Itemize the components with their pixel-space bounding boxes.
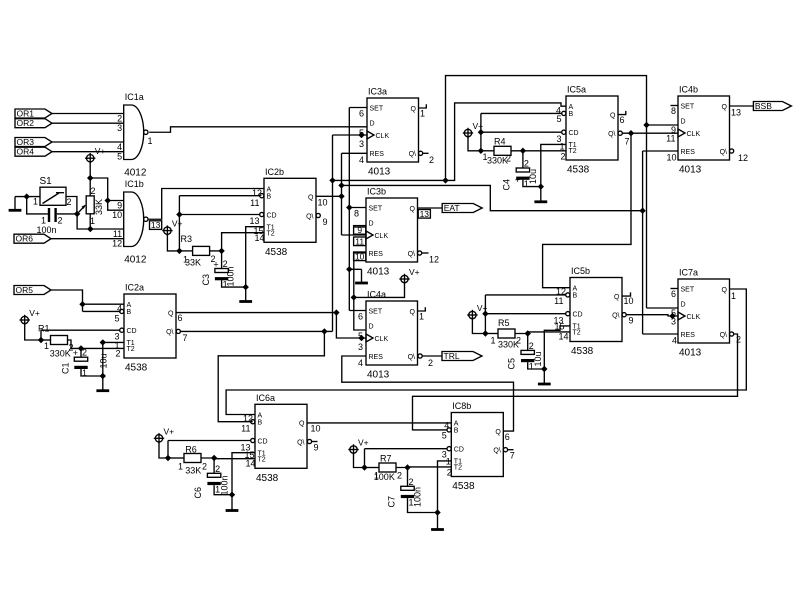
wire R4 pin1 (481, 150, 494, 152)
junction IC1b pin9 (105, 197, 111, 203)
svg-text:SET: SET (369, 308, 383, 315)
svg-text:2: 2 (117, 114, 122, 124)
svg-text:R6: R6 (185, 445, 197, 455)
wire OR2 to IC1a pin3 (52, 122, 124, 124)
junction R3 node (176, 248, 182, 254)
svg-text:+: + (515, 175, 520, 185)
capacitor C6 100n (207, 473, 220, 477)
junction C1 top tap (78, 345, 84, 351)
wire R5 pin1 (485, 333, 498, 335)
wire R7 pin1 (365, 467, 380, 469)
junction Q/rail (338, 193, 344, 199)
resistor R1 330K (51, 336, 68, 345)
svg-text:1: 1 (33, 197, 38, 207)
svg-text:14: 14 (558, 331, 568, 341)
svg-text:4: 4 (672, 336, 677, 346)
svg-text:2: 2 (115, 349, 120, 359)
svg-text:B: B (573, 293, 578, 300)
svg-text:4013: 4013 (367, 370, 390, 381)
wire down to IC4a D (354, 297, 366, 330)
svg-text:4538: 4538 (571, 346, 594, 357)
svg-text:Q: Q (410, 206, 416, 213)
svg-text:1: 1 (559, 142, 564, 152)
resistor R4 330K (494, 146, 511, 155)
svg-text:4013: 4013 (368, 167, 391, 178)
svg-text:T2: T2 (573, 330, 581, 337)
svg-text:Q: Q (610, 112, 616, 119)
svg-text:IC5b: IC5b (571, 266, 590, 276)
capacitor C4 10u (516, 168, 529, 172)
svg-text:11: 11 (355, 236, 364, 246)
wire C3 bottom to T1/ground node (222, 280, 246, 287)
wire IC1b output up to IC2b A (149, 189, 264, 220)
wire IC3a CLK (333, 134, 368, 136)
svg-text:T2: T2 (454, 465, 462, 472)
svg-text:Q: Q (722, 287, 728, 294)
junction CLK jog dot IC7a (669, 313, 675, 319)
junction R6/C6 (211, 455, 217, 461)
svg-text:13: 13 (151, 220, 161, 230)
capacitor under S1 100n (48, 208, 50, 222)
svg-text:1: 1 (44, 341, 49, 351)
wire to B (83, 310, 120, 312)
wire junction down to C5 (527, 334, 529, 351)
wire IC2a Q to IC4a CLK (176, 312, 336, 314)
svg-text:100n: 100n (220, 475, 230, 495)
feedback wire IC5a QN to IC5b A (543, 133, 631, 288)
wire C7 bottom to T1/ground node (408, 498, 438, 512)
wire OR1 to IC1a pin2 (52, 113, 124, 115)
rail2 to reset column (342, 185, 643, 210)
svg-text:5: 5 (556, 114, 561, 124)
svg-text:C7: C7 (387, 496, 397, 508)
svg-text:10u: 10u (528, 169, 538, 184)
svg-text:4012: 4012 (124, 168, 147, 179)
junction QN branch down (321, 328, 327, 334)
junction C4/T1/ground (538, 183, 544, 189)
svg-text:C3: C3 (201, 274, 211, 286)
svg-text:4: 4 (359, 155, 364, 165)
switch S1 (40, 187, 66, 205)
svg-text:7: 7 (510, 451, 515, 461)
wire IC3a SET (349, 107, 367, 109)
svg-text:SET: SET (681, 286, 695, 293)
svg-text:CLK: CLK (687, 314, 701, 321)
svg-text:Q\: Q\ (408, 251, 415, 258)
svg-text:V+: V+ (473, 121, 484, 131)
svg-text:4012: 4012 (124, 255, 147, 266)
wire V+ to R5 node (472, 319, 485, 334)
wire IC8b CD to R7 node (365, 448, 448, 450)
flip-flop IC7a (4013) (678, 279, 730, 343)
svg-text:IC3b: IC3b (367, 187, 386, 197)
svg-text:2: 2 (516, 336, 521, 346)
IC3a Q stub (nc) (419, 104, 427, 108)
svg-text:T2: T2 (569, 148, 577, 155)
junction ground tap (346, 266, 352, 272)
monostable IC5b (4538) (570, 278, 622, 342)
svg-text:10: 10 (311, 424, 321, 434)
input flag OR4 (15, 147, 52, 156)
reset column vertical (642, 151, 644, 334)
wire V+ to R1 node (25, 324, 41, 340)
V+ supply at R3 (164, 227, 171, 234)
wire to IC7a D (647, 307, 679, 309)
svg-text:IC8b: IC8b (452, 401, 471, 411)
NAND gate IC1b (4012) (124, 192, 144, 247)
svg-text:13: 13 (731, 108, 741, 118)
V+ supply symbol at pot (87, 155, 94, 162)
svg-text:IC5a: IC5a (567, 85, 586, 95)
svg-text:+: + (213, 260, 218, 270)
svg-text:CLK: CLK (376, 133, 390, 140)
svg-text:B: B (127, 309, 132, 316)
wire V+ to R6 node (159, 442, 168, 458)
svg-text:RES: RES (681, 332, 696, 339)
svg-text:C5: C5 (507, 358, 517, 370)
ground at switch S1 (14, 197, 16, 211)
svg-text:Q: Q (411, 106, 417, 113)
svg-text:6: 6 (671, 289, 676, 299)
svg-text:8: 8 (354, 209, 359, 219)
svg-text:Q\: Q\ (166, 329, 173, 336)
IC5a Q stub (618, 111, 626, 115)
svg-text:B: B (454, 428, 459, 435)
ground on SET rail (349, 268, 361, 270)
svg-text:Q: Q (308, 195, 314, 202)
wire IC2b B and CD tied to V+ node (179, 195, 259, 197)
svg-text:1: 1 (183, 255, 188, 265)
svg-text:S1: S1 (40, 176, 53, 187)
wire OR3 to IC1a pin4 (52, 141, 124, 143)
svg-text:4: 4 (358, 358, 363, 368)
svg-text:11: 11 (113, 229, 122, 239)
svg-text:2: 2 (736, 335, 741, 345)
svg-text:A: A (127, 302, 132, 309)
svg-text:3: 3 (671, 317, 676, 327)
svg-text:IC7a: IC7a (679, 268, 698, 278)
svg-text:10: 10 (624, 296, 634, 306)
wire QN branch to IC6a B (218, 331, 324, 421)
svg-text:5: 5 (114, 314, 119, 324)
wire IC3a RES (342, 152, 368, 154)
svg-text:D: D (681, 119, 686, 126)
svg-text:2: 2 (91, 186, 96, 196)
svg-text:3: 3 (117, 123, 122, 133)
wire C6 bottom to T1/ground node (214, 485, 232, 495)
ground at C1 (102, 376, 104, 391)
svg-text:10: 10 (112, 210, 122, 220)
IC4b Q wire to BSB (730, 105, 754, 107)
V+ at R7 (350, 446, 357, 453)
svg-text:3: 3 (358, 342, 363, 352)
svg-text:14: 14 (245, 459, 255, 469)
wire branch down to CLK (336, 313, 366, 338)
wire V+ down to junction (89, 162, 91, 178)
input flag OR5 (14, 286, 51, 295)
IC5a QN feedback to A and IC4b CLK (618, 131, 622, 135)
input flag OR2 (15, 119, 52, 128)
wire capacitor plate2 to node (57, 213, 77, 215)
boxed pin number 13 IC1b output (150, 221, 162, 230)
junction V+ / pot top (87, 175, 93, 181)
junction on reset column (639, 208, 645, 214)
V+ at R4 (464, 129, 471, 136)
junction C1/ground (100, 373, 106, 379)
wire to IC7a RES (643, 333, 678, 335)
wire up to IC3b RES (354, 253, 366, 297)
svg-text:11: 11 (250, 198, 259, 208)
junction T1 line (100, 339, 106, 345)
monostable IC5a (4538) (566, 96, 618, 160)
svg-text:V+: V+ (95, 146, 106, 156)
wire OR6 to IC1b pin12 (51, 238, 124, 240)
svg-text:Q\: Q\ (409, 151, 416, 158)
svg-text:B: B (569, 111, 574, 118)
ground at C7 (437, 513, 439, 530)
svg-text:2: 2 (58, 216, 63, 226)
wire junction down to capacitor plate1 (27, 197, 48, 214)
svg-text:6: 6 (178, 313, 183, 323)
wire V+ to R4 node (468, 137, 481, 151)
svg-text:4013: 4013 (367, 267, 390, 278)
svg-text:V+: V+ (164, 426, 175, 436)
wire junction to IC1b pins 9,10 (90, 178, 124, 201)
wire R3 pin1 (179, 250, 192, 252)
svg-text:CD: CD (127, 328, 137, 335)
svg-text:OR6: OR6 (16, 234, 34, 244)
NAND gate IC1a (4012) (124, 105, 144, 160)
svg-text:5: 5 (442, 431, 447, 441)
svg-text:A: A (569, 104, 574, 111)
svg-text:2: 2 (428, 358, 433, 368)
wire IC8b Q to IC4a RES (342, 356, 514, 431)
junction B/CD tie (176, 211, 182, 217)
junction C3/T1/ground (243, 284, 249, 290)
IC2b QN bubble (nc) (316, 213, 320, 217)
svg-text:4538: 4538 (452, 481, 475, 492)
wire IC3b CLK (342, 234, 367, 236)
vertical IC3a RES / IC3b CLK net (341, 153, 343, 235)
svg-text:2: 2 (215, 464, 220, 474)
svg-text:V+: V+ (477, 303, 488, 313)
wire to IC4b RES (643, 150, 678, 152)
svg-text:Q\: Q\ (408, 354, 415, 361)
wire C1 bottom to ground node (81, 369, 103, 376)
V+ at IC4a (401, 275, 408, 282)
svg-text:12: 12 (112, 239, 122, 249)
svg-text:RES: RES (370, 151, 385, 158)
svg-text:10: 10 (318, 198, 328, 208)
wire IC5b T1 down to node (544, 326, 570, 369)
top wire to IC4b D and IC7a D (446, 76, 647, 308)
junction R5 node (482, 330, 488, 336)
svg-text:T2: T2 (127, 346, 135, 353)
svg-text:V+: V+ (358, 438, 369, 448)
svg-text:1: 1 (731, 291, 736, 301)
monostable IC2b (4538) (264, 178, 316, 242)
svg-text:R4: R4 (494, 137, 506, 147)
junction IC4b D tap (643, 122, 649, 128)
svg-text:Q\: Q\ (720, 332, 727, 339)
svg-text:33K: 33K (185, 465, 201, 475)
capacitor C1 10u (74, 357, 87, 361)
svg-text:3: 3 (359, 139, 364, 149)
junction R4/C4 (520, 148, 526, 154)
svg-text:1: 1 (483, 152, 488, 162)
svg-text:IC4b: IC4b (679, 85, 698, 95)
svg-text:4013: 4013 (679, 348, 702, 359)
pot top lead (89, 178, 91, 196)
svg-text:2: 2 (409, 477, 414, 487)
junction CD tie (478, 129, 484, 135)
IC4a Q stub (nc) (418, 307, 426, 311)
svg-text:1: 1 (90, 216, 95, 226)
svg-text:CD: CD (454, 447, 464, 454)
svg-text:2: 2 (524, 159, 529, 169)
IC4b SET stub (nc) (671, 105, 679, 107)
junction CD tie IC5b (482, 311, 488, 317)
wire R1 pin2 down to T2 line (68, 340, 125, 348)
svg-text:SET: SET (370, 105, 384, 112)
svg-text:Q\: Q\ (608, 131, 615, 138)
svg-text:OR3: OR3 (17, 137, 35, 147)
svg-text:4538: 4538 (265, 247, 288, 258)
svg-text:Q\: Q\ (297, 439, 304, 446)
svg-text:D: D (370, 121, 375, 128)
svg-text:OR5: OR5 (16, 285, 34, 295)
junction C5/T1/ground (541, 366, 547, 372)
junction top wire (442, 177, 448, 183)
input flag OR3 (15, 138, 52, 147)
svg-text:D: D (681, 302, 686, 309)
output flag EAT (442, 204, 482, 213)
svg-text:TRL: TRL (444, 351, 460, 361)
wire IC6a CD to R6 node (168, 440, 251, 442)
svg-text:IC1a: IC1a (125, 92, 144, 102)
svg-text:IC2a: IC2a (125, 283, 144, 293)
svg-text:OR2: OR2 (17, 118, 35, 128)
svg-text:5: 5 (117, 152, 122, 162)
svg-text:C6: C6 (193, 487, 203, 499)
IC4a QN to TRL flag (418, 354, 422, 358)
svg-text:100n: 100n (226, 266, 236, 286)
flip-flop IC3b (4013) (366, 198, 418, 262)
svg-text:CD: CD (267, 212, 277, 219)
svg-text:Q\: Q\ (493, 448, 500, 455)
svg-text:T2: T2 (267, 231, 275, 238)
flip-flop IC4b (4013) (678, 96, 730, 160)
junction QN feedback (628, 130, 634, 136)
input flag OR1 (15, 109, 52, 118)
IC8b QN stub (nc) (503, 448, 507, 452)
wire R1 pin1 (41, 339, 51, 341)
wire C4 bottom to T1/ground node (523, 180, 541, 187)
IC3a QN bubble and stub (nc) (419, 151, 423, 155)
svg-text:33K: 33K (94, 199, 104, 215)
svg-text:2: 2 (506, 154, 511, 164)
wire IC5b B and CD to V+ node (485, 294, 565, 296)
wire OR4 to IC1a pin5 (52, 151, 124, 153)
svg-text:RES: RES (369, 354, 384, 361)
flip-flop IC4a (4013) (366, 301, 418, 365)
resistor R3 33K (193, 246, 210, 255)
svg-text:1: 1 (374, 471, 379, 481)
boxed pin 9 (354, 226, 366, 235)
wire IC2b Q to junction (316, 195, 342, 197)
svg-text:V+: V+ (409, 267, 420, 277)
junction R4 node (478, 148, 484, 154)
capacitor C7 100n (401, 486, 414, 490)
svg-text:4: 4 (444, 421, 449, 431)
wire V+ to R7 node (354, 453, 365, 467)
svg-text:A: A (258, 412, 263, 419)
svg-text:Q\: Q\ (720, 149, 727, 156)
svg-text:6: 6 (620, 115, 625, 125)
svg-text:IC3a: IC3a (368, 87, 387, 97)
svg-text:CLK: CLK (375, 233, 389, 240)
boxed pin 13 and Q wire to EAT (418, 207, 443, 209)
wire node down to pot bottom then IC1b pin11 (77, 214, 124, 229)
svg-text:2: 2 (447, 468, 452, 478)
svg-text:Q: Q (614, 294, 620, 301)
svg-text:12: 12 (243, 414, 253, 424)
svg-text:V+: V+ (172, 219, 183, 229)
junction A tap (79, 301, 85, 307)
svg-text:EAT: EAT (444, 203, 460, 213)
input flag OR6 (14, 234, 51, 243)
svg-text:12: 12 (738, 153, 748, 163)
monostable IC6a (4538) (255, 404, 307, 468)
wire to IC1b pin10 (108, 201, 124, 211)
monostable IC8b (4538) (451, 413, 503, 477)
svg-text:A: A (573, 286, 578, 293)
V+ at R1 (21, 316, 28, 323)
wire junction down to C4 (522, 151, 524, 168)
svg-text:2: 2 (67, 197, 72, 207)
svg-text:D: D (369, 221, 374, 228)
svg-text:6: 6 (358, 312, 363, 322)
wire IC3b SET (349, 207, 366, 209)
wire R6 pin1 (168, 457, 184, 459)
svg-text:A: A (454, 421, 459, 428)
IC7a Q to rail and IC6a A (226, 289, 746, 415)
svg-text:OR4: OR4 (17, 147, 35, 157)
svg-text:1: 1 (82, 368, 87, 378)
junction at S1 input node (24, 193, 30, 199)
junction R7 node (361, 464, 367, 470)
svg-text:Q: Q (168, 310, 174, 317)
wire R3 pin2 to junction (210, 250, 222, 252)
svg-text:+: + (73, 348, 78, 358)
svg-text:B: B (267, 194, 272, 201)
junction IC2a Q branch (333, 309, 339, 315)
svg-text:5: 5 (359, 128, 364, 138)
junction switch/cap/wiper node (74, 211, 80, 217)
svg-text:330K: 330K (487, 156, 508, 166)
svg-text:Q\: Q\ (306, 213, 313, 220)
wire IC6a T1 down to node (232, 453, 255, 495)
svg-text:4013: 4013 (679, 165, 702, 176)
svg-text:Q: Q (722, 104, 728, 111)
svg-text:4538: 4538 (256, 473, 279, 484)
svg-text:SET: SET (681, 103, 695, 110)
wire to A (83, 303, 125, 305)
svg-text:11: 11 (666, 134, 675, 144)
svg-text:10: 10 (666, 153, 676, 163)
svg-text:7: 7 (183, 333, 188, 343)
svg-text:11: 11 (241, 424, 250, 434)
